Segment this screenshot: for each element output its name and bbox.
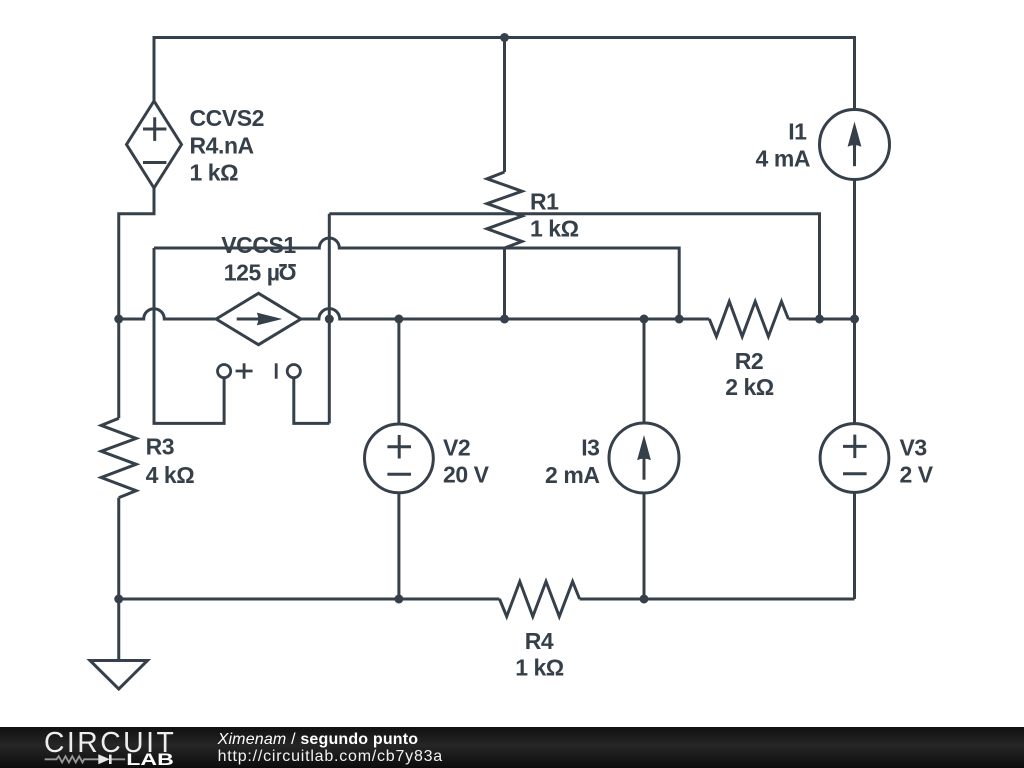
svg-text:4 kΩ: 4 kΩ xyxy=(146,462,195,488)
wire node row y=319 with hops at x=154 and x=329.3 xyxy=(119,309,855,319)
junction node V2 bottom xyxy=(394,595,403,604)
svg-text:Ω: Ω xyxy=(279,259,297,285)
current source I3 xyxy=(609,423,679,493)
resistor R2 xyxy=(709,302,788,337)
wire mid rail y=213.75 from x=329 to x=819.5 down to node row xyxy=(329,214,819,319)
svg-text:20 V: 20 V xyxy=(443,462,490,488)
svg-text:VCCS1: VCCS1 xyxy=(221,232,296,258)
footer bar xyxy=(0,727,1024,768)
resistor R3 xyxy=(101,418,136,497)
wire I1 bottom lead xyxy=(853,180,856,320)
wire ground stem xyxy=(117,599,120,661)
wire bottom rail y=599 xyxy=(119,598,855,601)
svg-text:1 kΩ: 1 kΩ xyxy=(515,654,564,680)
svg-text:1 kΩ: 1 kΩ xyxy=(530,216,579,242)
svg-text:I1: I1 xyxy=(788,119,807,145)
voltage source V3 xyxy=(820,424,889,493)
junction node I3 bottom xyxy=(640,595,649,604)
voltage source V2 xyxy=(365,424,434,493)
resistor R1 xyxy=(487,172,522,248)
resistor R4 xyxy=(500,582,580,617)
svg-text:V2: V2 xyxy=(443,434,470,460)
svg-text:Ximenam / segundo punto: Ximenam / segundo punto xyxy=(217,731,419,748)
dependent source CCVS2 xyxy=(127,101,182,188)
dependent source VCCS1 xyxy=(216,293,301,344)
junction node ground rail xyxy=(114,595,123,604)
wire V2 bottom lead xyxy=(397,493,400,599)
svg-text:I3: I3 xyxy=(581,435,599,461)
svg-text:R1: R1 xyxy=(530,189,559,215)
ground xyxy=(90,661,148,690)
wire rail y=248 with hop over x=329.3, to x=679.2 down to node row xyxy=(154,238,679,319)
wire I3 top lead xyxy=(643,319,646,423)
VCCS1 sense terminal - xyxy=(276,363,300,378)
svg-text:R3: R3 xyxy=(146,434,175,460)
svg-text:2 V: 2 V xyxy=(900,462,934,488)
svg-text:2 mA: 2 mA xyxy=(545,462,599,488)
wire vertical x=329.3 through node row xyxy=(328,214,331,424)
svg-text:2 kΩ: 2 kΩ xyxy=(725,374,774,400)
CircuitLab logo resistor-diode glyph xyxy=(45,754,126,764)
junction node VCCS sense xyxy=(325,315,334,324)
svg-text:http://circuitlab.com/cb7y83a: http://circuitlab.com/cb7y83a xyxy=(218,748,443,765)
svg-text:4 mA: 4 mA xyxy=(756,145,810,171)
wire R1 bottom to node row xyxy=(503,248,506,319)
wire R3 top lead xyxy=(117,319,120,418)
current source I1 xyxy=(820,110,890,180)
wire V3 top lead xyxy=(853,319,856,424)
wire top rail xyxy=(154,38,855,110)
label VCCS1 value 125 µmho xyxy=(224,259,297,286)
junction node left rail / R3 xyxy=(114,315,123,324)
wire R3 bottom lead xyxy=(117,498,120,599)
svg-text:LAB: LAB xyxy=(126,751,174,768)
junction node R1 bottom xyxy=(500,315,509,324)
svg-text:R2: R2 xyxy=(735,348,764,374)
junction node top rail / R1 xyxy=(500,33,509,42)
wire VCCS1 left sense loop xyxy=(154,248,224,423)
svg-text:1 kΩ: 1 kΩ xyxy=(190,160,239,186)
wire V2 top lead xyxy=(397,319,400,424)
wire CCVS2 bottom step to node xyxy=(119,188,154,320)
svg-text:R4: R4 xyxy=(525,628,554,654)
svg-text:CCVS2: CCVS2 xyxy=(190,105,264,131)
svg-text:R4.nA: R4.nA xyxy=(190,133,254,159)
svg-text:V3: V3 xyxy=(900,434,927,460)
wire V3 bottom lead down and bottom rail corner xyxy=(853,493,856,600)
junction node V2 top xyxy=(394,315,403,324)
wire VCCS1 right sense loop xyxy=(294,378,330,423)
junction node y248 rail xyxy=(675,315,684,324)
wire I3 bottom lead xyxy=(643,493,646,599)
junction node I1/V3 xyxy=(850,315,859,324)
VCCS1 sense terminal + xyxy=(218,363,253,378)
junction node mid rail xyxy=(815,315,824,324)
junction node I3 top xyxy=(640,315,649,324)
wire R1 top lead xyxy=(503,38,506,173)
svg-text:125 µ: 125 µ xyxy=(224,260,280,286)
